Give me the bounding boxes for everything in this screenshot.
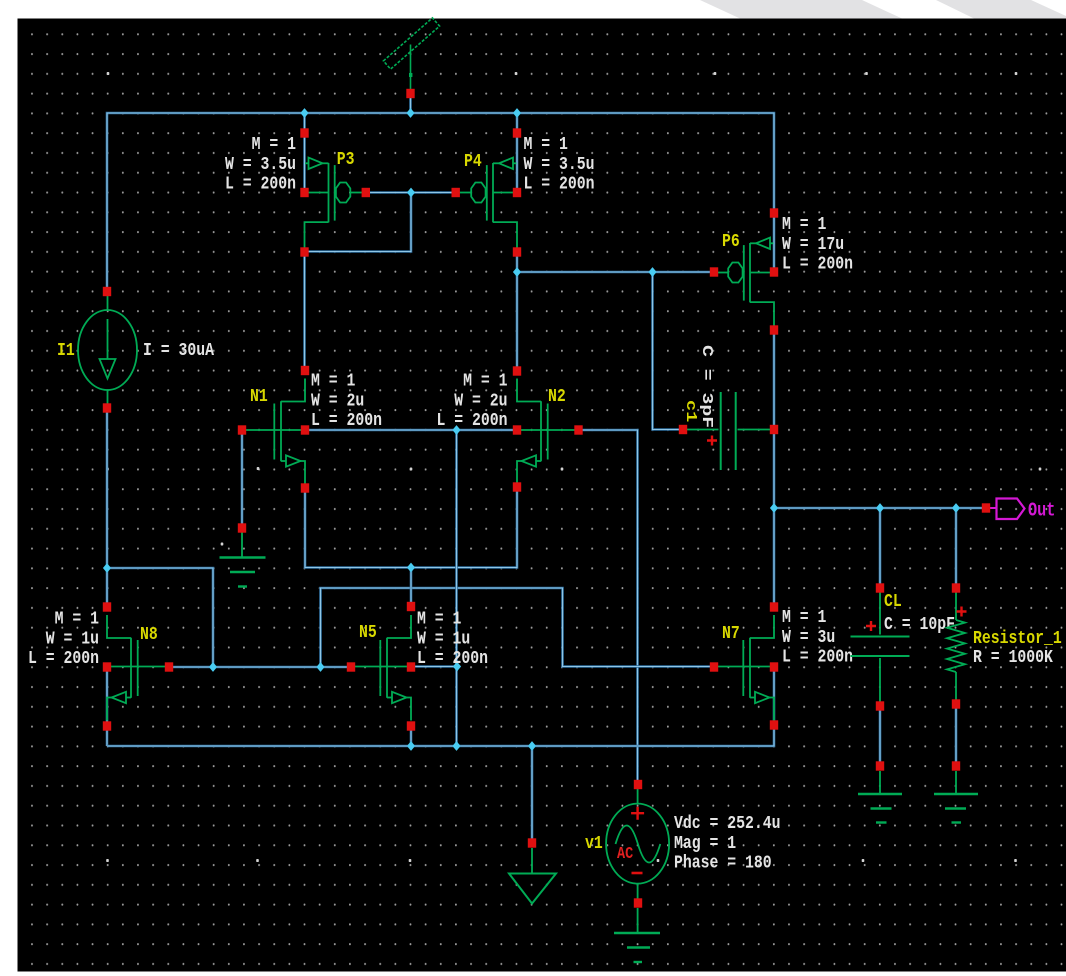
pin N7 S — [770, 720, 778, 729]
svg-text:W = 1u: W = 1u — [417, 629, 470, 650]
wire tail node — [305, 487, 517, 568]
pin N5 D — [407, 602, 415, 611]
wire P3 source drop — [303, 113, 306, 196]
pin vdd — [406, 89, 414, 98]
pin N7 G — [710, 662, 718, 671]
pin Out — [982, 503, 990, 512]
pin v1 minus — [634, 898, 642, 907]
pin gnd CL — [876, 761, 884, 770]
ground gnd v1 — [614, 908, 660, 962]
transistor N8 — [107, 615, 169, 721]
voltage source v1 — [606, 789, 669, 899]
pin R top — [952, 583, 960, 592]
wire bottom rail — [107, 725, 774, 746]
wire bias to N7 gate — [321, 588, 715, 667]
svg-text:M = 1: M = 1 — [417, 609, 461, 630]
svg-text:L = 200n: L = 200n — [28, 649, 99, 670]
wire junction — [407, 741, 415, 751]
pin N8 S — [103, 721, 111, 730]
wire P4 source drop — [516, 113, 519, 196]
svg-text:Vdc = 252.4u: Vdc = 252.4u — [674, 814, 781, 835]
svg-text:P6: P6 — [722, 232, 740, 253]
wire N1 bulk to N2 bulk row — [305, 429, 517, 432]
wire first stage out to P6 gate — [517, 271, 714, 274]
pin N7 B — [770, 662, 778, 671]
pin N1 B — [301, 425, 309, 434]
svg-text:P3: P3 — [337, 150, 355, 171]
svg-text:N8: N8 — [140, 625, 158, 646]
resistor Resistor_1 — [947, 592, 965, 700]
svg-text:L = 200n: L = 200n — [782, 647, 853, 668]
pin N1 D — [301, 366, 309, 375]
wire junction — [513, 108, 521, 118]
pin N5 G — [347, 662, 355, 671]
pin N8 D — [103, 602, 111, 611]
pin N2 G — [574, 425, 582, 434]
svg-text:C = 3pF: C = 3pF — [698, 345, 715, 428]
svg-text:M = 1: M = 1 — [782, 215, 826, 236]
svg-text:AC: AC — [617, 844, 633, 864]
wire junction — [528, 741, 536, 751]
pin CL top — [876, 583, 884, 592]
pin N8 B — [103, 662, 111, 671]
pin N2 B — [513, 425, 521, 434]
wire junction — [316, 662, 324, 672]
svg-text:L = 200n: L = 200n — [436, 411, 507, 432]
svg-text:W = 3.5u: W = 3.5u — [225, 154, 296, 175]
pin P6 B — [770, 267, 778, 276]
wire P6 drain to output node to N7 drain — [773, 330, 776, 607]
svg-text:Phase = 180: Phase = 180 — [674, 853, 772, 874]
svg-text:W = 2u: W = 2u — [311, 391, 364, 412]
pin gnd1 — [238, 523, 246, 532]
pin N5 S — [407, 721, 415, 730]
transistor P6 — [714, 238, 774, 332]
wire N8 bulk-source — [106, 667, 109, 746]
wire to capacitor C1 left — [653, 272, 682, 430]
svg-text:M = 1: M = 1 — [252, 135, 296, 156]
wire bias from I1 node — [107, 568, 213, 667]
wire junction — [300, 108, 308, 118]
svg-text:L = 200n: L = 200n — [417, 649, 488, 670]
svg-text:M = 1: M = 1 — [311, 371, 355, 392]
pin N1 S — [301, 483, 309, 492]
transistor N2 — [517, 379, 579, 485]
wire junction — [209, 662, 217, 672]
svg-text:N7: N7 — [722, 624, 740, 645]
svg-text:W = 2u: W = 2u — [454, 391, 507, 412]
pin P6 G — [710, 267, 718, 276]
transistor N5 — [351, 615, 411, 721]
port Out — [990, 507, 997, 509]
wire junction — [876, 503, 884, 513]
svg-text:R = 1000K: R = 1000K — [973, 648, 1054, 669]
svg-text:L = 200n: L = 200n — [311, 411, 382, 432]
wire junction — [770, 503, 778, 513]
pin P4 B — [513, 188, 521, 197]
svg-text:L = 200n: L = 200n — [524, 174, 595, 195]
wire junction — [513, 267, 521, 277]
pin C1 left — [679, 425, 687, 434]
pin R bottom — [952, 699, 960, 708]
wire tail to N5 drain — [410, 568, 413, 607]
power symbol vdd — [383, 18, 439, 89]
svg-text:Mag = 1: Mag = 1 — [674, 833, 736, 854]
pin N5 B — [407, 662, 415, 671]
pin P6 D — [770, 325, 778, 334]
wire junction — [452, 425, 460, 435]
CL polarity plus — [866, 621, 876, 631]
svg-text:W = 17u: W = 17u — [782, 234, 844, 255]
svg-text:C = 10pF: C = 10pF — [884, 615, 955, 636]
wire rail to ground — [531, 746, 534, 843]
wire junction — [952, 503, 960, 513]
ground gnd1 — [220, 532, 266, 587]
svg-text:N5: N5 — [359, 623, 377, 644]
pin C1 right — [770, 425, 778, 434]
pin v1 plus — [634, 780, 642, 789]
wire P4 drain to N2 drain — [516, 252, 519, 374]
wire N1 gate to ground — [241, 430, 244, 528]
wire junction — [407, 188, 415, 198]
svg-text:I = 30uA: I = 30uA — [143, 341, 215, 362]
C1 polarity plus — [707, 436, 717, 446]
pin I1 minus — [103, 403, 111, 412]
pin I1 plus — [103, 287, 111, 296]
transistor N7 — [714, 615, 774, 721]
svg-text:CL: CL — [884, 592, 902, 613]
svg-text:v1: v1 — [585, 834, 603, 855]
svg-text:M = 1: M = 1 — [463, 371, 507, 392]
pin gnd R — [952, 761, 960, 770]
wire N5 source to rail — [410, 726, 413, 746]
wire junction — [406, 108, 414, 118]
net VDD: top rail wire — [107, 113, 774, 291]
pin N2 S — [513, 482, 521, 491]
wire P3 drain to N1 drain — [303, 252, 306, 374]
wire CL to ground — [879, 706, 882, 766]
pin N1 G — [238, 425, 246, 434]
svg-text:M = 1: M = 1 — [782, 608, 826, 629]
current source I1 — [78, 296, 137, 404]
wire N5 bulk stub — [411, 665, 457, 668]
wire junction — [103, 563, 111, 573]
ground gnd R — [934, 771, 978, 823]
svg-text:c1: c1 — [682, 400, 699, 422]
svg-text:W = 1u: W = 1u — [46, 629, 99, 650]
pin P3 D — [300, 247, 308, 256]
wire N7 bulk-source — [773, 667, 776, 725]
transistor P3 — [305, 158, 366, 252]
pin P4 G — [452, 188, 460, 197]
wire resistor to ground — [955, 704, 958, 766]
svg-text:N2: N2 — [548, 387, 566, 408]
wire junction — [407, 563, 415, 573]
svg-text:P4: P4 — [464, 152, 482, 173]
ground agnd triangle — [509, 848, 556, 904]
wire I1 to N8 drain — [106, 408, 109, 611]
wire output to CL — [879, 508, 882, 588]
R polarity plus — [957, 607, 967, 617]
capacitor CL — [851, 592, 910, 702]
svg-text:W = 3.5u: W = 3.5u — [524, 154, 595, 175]
wire vdd stub — [409, 97, 412, 113]
transistor N1 — [242, 379, 305, 485]
svg-text:N1: N1 — [250, 387, 268, 408]
pin P3 B — [300, 188, 308, 197]
wire output node row — [774, 507, 984, 510]
pin P3 G — [362, 188, 370, 197]
wire bias row N8 gate to N5 gate — [169, 666, 351, 669]
pin CL bottom — [876, 701, 884, 710]
pin P3 S — [300, 128, 308, 137]
pin N8 G — [165, 662, 173, 671]
pin N7 D — [770, 602, 778, 611]
svg-text:Out: Out — [1028, 501, 1055, 522]
capacitor C1 — [685, 392, 770, 470]
wire junction — [453, 662, 461, 672]
pin P6 S — [770, 208, 778, 217]
svg-text:L = 200n: L = 200n — [782, 254, 853, 275]
pin P4 D — [513, 247, 521, 256]
pin agnd — [528, 838, 536, 847]
wire P3 diode connection — [305, 193, 412, 252]
svg-text:W = 3u: W = 3u — [782, 627, 835, 648]
pin N2 D — [513, 366, 521, 375]
wire N2 gate to v1 — [579, 430, 638, 785]
svg-text:M = 1: M = 1 — [524, 135, 568, 156]
wire junction — [452, 741, 460, 751]
pin P4 S — [513, 128, 521, 137]
svg-text:Resistor_1: Resistor_1 — [973, 629, 1062, 650]
wire bulk net vertical — [455, 430, 458, 746]
wire P3 gate to P4 gate — [366, 191, 456, 194]
svg-text:I1: I1 — [57, 341, 75, 362]
v1 minus — [632, 872, 643, 875]
ground gnd CL — [858, 771, 902, 823]
wire junction — [648, 267, 656, 277]
v1 plus — [631, 807, 644, 820]
wire output to resistor — [955, 508, 958, 588]
svg-text:M = 1: M = 1 — [55, 609, 99, 630]
transistor P4 — [456, 158, 517, 252]
svg-text:L = 200n: L = 200n — [225, 174, 296, 195]
